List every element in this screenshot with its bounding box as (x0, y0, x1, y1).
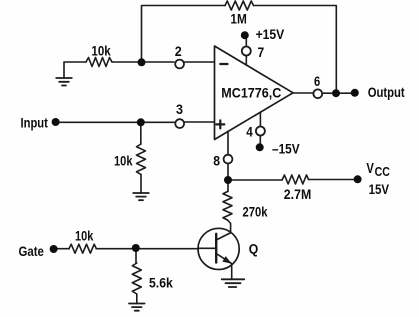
svg-text:10k: 10k (75, 227, 93, 243)
svg-text:+15V: +15V (256, 26, 285, 42)
svg-text:1M: 1M (230, 11, 246, 27)
svg-text:10k: 10k (114, 152, 133, 168)
svg-text:7: 7 (258, 44, 265, 60)
svg-text:Input: Input (21, 115, 49, 131)
svg-text:270k: 270k (243, 204, 268, 220)
svg-text:8: 8 (213, 152, 220, 168)
svg-text:6: 6 (314, 73, 320, 89)
svg-text:CC: CC (375, 164, 391, 179)
svg-text:10k: 10k (91, 43, 110, 59)
svg-text:4: 4 (246, 123, 253, 139)
svg-text:2: 2 (175, 43, 182, 59)
svg-text:Output: Output (368, 84, 405, 100)
svg-text:3: 3 (176, 101, 183, 117)
svg-text:–15V: –15V (272, 141, 300, 157)
svg-text:V: V (366, 161, 374, 177)
svg-text:5.6k: 5.6k (149, 275, 173, 291)
svg-text:Gate: Gate (19, 243, 45, 259)
svg-text:2.7M: 2.7M (284, 186, 312, 202)
svg-text:MC1776,C: MC1776,C (221, 85, 281, 101)
svg-text:15V: 15V (369, 181, 390, 197)
svg-text:Q: Q (249, 241, 259, 257)
